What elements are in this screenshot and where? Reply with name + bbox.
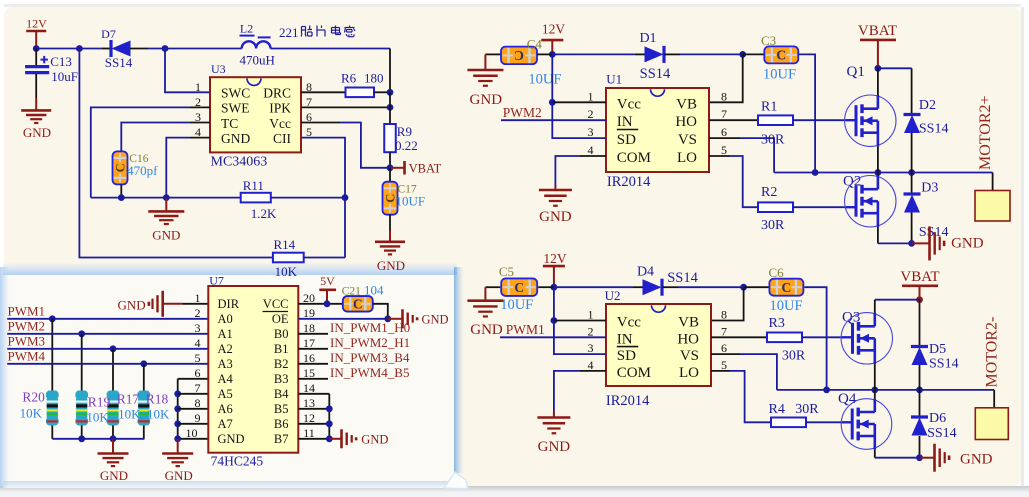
nodes on bus [78,435,85,442]
wire VB pin8 [709,54,743,102]
svg-text:10K: 10K [86,410,109,425]
svg-text:B7: B7 [274,432,289,446]
node VBAT [387,164,394,171]
svg-text:COM: COM [617,365,651,381]
U3 pin3 wire to C16 [190,122,210,124]
node PWM1 pulldown branch [49,315,56,322]
svg-text:6: 6 [721,341,727,355]
wire to motor pad 2 [993,390,995,408]
svg-text:IN_PWM1_H0: IN_PWM1_H0 [330,320,410,335]
svg-text:C: C [776,48,786,63]
svg-text:U3: U3 [211,62,226,76]
wire R11 net [91,197,241,199]
wire PWM1 to U7 pin2 [7,318,208,320]
svg-text:LO: LO [679,365,699,381]
svg-text:16: 16 [303,351,315,365]
svg-text:R19: R19 [88,395,111,410]
svg-text:C: C [113,163,127,172]
node C16-R11 net [118,194,125,201]
svg-text:VBAT: VBAT [900,269,939,285]
svg-text:PWM1: PWM1 [506,322,545,337]
svg-text:104: 104 [364,283,384,298]
svg-text:A3: A3 [218,357,233,371]
svg-text:7: 7 [195,381,201,395]
svg-text:GND: GND [422,312,449,326]
wire R4 to Q4 gate [806,421,842,423]
svg-text:D7: D7 [101,27,116,41]
resistor R6 180 [346,88,375,98]
svg-text:9: 9 [195,411,201,425]
resistor R4 30R [771,418,806,428]
IC U3 MC34063 [210,77,301,152]
node GND junction [163,194,170,201]
svg-text:GND: GND [951,236,984,252]
wire LO pin5 to R4 [711,370,730,372]
wire R2 to Q2 gate [793,206,846,208]
svg-text:GND: GND [118,298,146,313]
svg-text:MOTOR2+: MOTOR2+ [977,95,994,170]
svg-text:12V: 12V [543,251,567,266]
svg-text:180: 180 [364,71,384,86]
node: 12V rail junction [33,45,40,52]
node D1 out / VB [739,51,746,58]
svg-text:10UF: 10UF [396,194,426,209]
svg-text:VB: VB [676,96,697,112]
svg-text:7: 7 [721,107,727,121]
svg-text:R2: R2 [761,185,777,200]
svg-text:IPK: IPK [269,101,291,116]
svg-text:R20: R20 [22,390,45,405]
svg-text:6: 6 [721,125,727,139]
wire 12V rail to D1 [552,53,635,55]
ground bus GND [112,439,114,454]
IN underline (U2 pin2) [617,346,639,348]
svg-text:IN: IN [617,331,633,347]
sheet shadow bottom [0,486,1029,492]
svg-text:R4: R4 [769,402,785,417]
svg-text:2: 2 [195,306,201,320]
capacitor C4 10UF [485,53,501,55]
ground rotated at pin19 [388,318,403,320]
wire D7 to L2 [130,48,148,50]
svg-text:20: 20 [303,291,315,305]
node gnd line (U2) [916,454,923,461]
U3 pin5 wire down [301,138,345,198]
svg-text:5V: 5V [320,274,335,288]
ground C17 [375,241,405,244]
svg-text:74HC245: 74HC245 [211,454,264,469]
svg-text:IN_PWM2_H1: IN_PWM2_H1 [330,335,410,350]
svg-text:10K: 10K [118,407,141,422]
U3 pin2 wire to SWE net [190,106,210,108]
svg-text:13: 13 [303,396,315,410]
svg-text:C6: C6 [769,265,785,280]
svg-text:Q2: Q2 [843,174,861,190]
svg-text:17: 17 [303,336,315,350]
svg-text:A6: A6 [218,402,233,416]
node VBAT/Q1/D2 [875,65,882,72]
resistor R20 10K pulldown [51,319,53,391]
wire PWM4 to U7 pin5 [7,363,208,365]
node PWM4 pulldown branch [140,360,147,367]
svg-text:A2: A2 [218,342,233,356]
svg-text:GND: GND [23,125,51,140]
node PWM3 pulldown branch [110,345,117,352]
U7 output net labels [298,333,328,335]
svg-text:11: 11 [303,426,315,440]
svg-text:B4: B4 [274,387,289,401]
node pin7 [387,104,394,111]
wire VBAT to D2 col [878,67,912,69]
svg-text:PWM4: PWM4 [8,349,46,364]
svg-text:A4: A4 [218,372,234,386]
svg-text:12V: 12V [542,22,566,37]
ground U3 [165,198,167,212]
node PWM2 pulldown branch [78,330,85,337]
U3 pin8 wire to R6 [301,91,346,93]
svg-text:DRC: DRC [263,86,291,101]
svg-text:GND: GND [538,439,571,455]
svg-text:VS: VS [680,348,699,364]
capacitor C17 10UF [389,168,391,183]
capacitor C5 10UF [485,286,500,288]
svg-text:SD: SD [617,132,636,148]
node VS-D5/D6 [916,387,923,394]
svg-text:SWE: SWE [221,101,250,116]
node A (C13 branch) [76,45,83,52]
ground U1 COM [554,185,556,190]
motor connector pad M2+ [975,191,1010,222]
capacitor C3 10UF [743,53,765,55]
wire 12V rail to D4 [554,286,633,288]
resistor R1 30R [758,115,793,125]
wire LO pin5 to R2 [709,155,730,157]
svg-text:C21: C21 [342,286,361,298]
svg-text:A7: A7 [218,417,233,431]
svg-text:R3: R3 [769,316,785,331]
svg-text:SS14: SS14 [105,55,133,70]
svg-text:C: C [514,48,524,63]
svg-text:GND: GND [165,468,193,483]
resistor R9 0.22 [384,124,396,152]
svg-text:B0: B0 [274,327,289,341]
svg-text:1: 1 [195,291,201,305]
wire R3 to Q3 gate [802,336,842,338]
svg-text:R9: R9 [397,124,412,139]
svg-text:VCC: VCC [263,297,289,311]
power port VBAT (left) [390,167,404,169]
node D4 out / VB [740,284,747,291]
svg-text:10UF: 10UF [770,298,803,314]
svg-text:HO: HO [677,331,699,347]
U7 pin20 wire VCC [298,303,343,305]
wire VB pin8 (U2) [711,287,744,320]
svg-text:D4: D4 [637,265,654,280]
ground rotated (U1 low side) [912,242,930,244]
wire C6 to VS [804,287,826,390]
svg-text:30R: 30R [761,133,785,148]
ground U2 COM [553,412,555,418]
wire VS net line [774,172,993,174]
svg-text:B3: B3 [274,372,289,386]
svg-text:IN_PWM4_B5: IN_PWM4_B5 [330,365,409,380]
ground C5 [484,287,486,301]
svg-text:U7: U7 [209,274,224,288]
resistor R11 1.2K [241,193,271,203]
wire HO pin7 to R3 [711,336,767,338]
svg-text:1: 1 [588,89,594,103]
resistor R18 10K pulldown [143,364,145,391]
svg-text:10K: 10K [275,264,298,279]
svg-text:18: 18 [303,321,315,335]
svg-text:GND: GND [100,468,128,483]
wire to motor pad 1 [992,173,994,191]
node VCC [324,300,331,307]
node gnd line [908,240,915,247]
wire PWM3 to U7 pin4 [7,348,208,350]
svg-text:MOTOR2-: MOTOR2- [984,317,1001,388]
ground rotated (U2 low side) [920,457,935,459]
svg-text:4: 4 [195,336,201,350]
svg-text:B5: B5 [274,402,289,416]
svg-text:Q4: Q4 [838,391,857,407]
svg-text:Q1: Q1 [847,64,865,80]
svg-text:L2: L2 [240,22,253,36]
svg-text:R11: R11 [243,178,264,193]
svg-text:8: 8 [721,89,727,103]
svg-text:U1: U1 [606,72,622,87]
svg-text:GND: GND [218,432,245,446]
svg-text:2: 2 [588,324,594,338]
svg-text:4: 4 [588,358,594,372]
svg-text:8: 8 [195,396,201,410]
svg-text:VS: VS [678,132,697,148]
svg-text:12V: 12V [26,17,47,31]
svg-text:R17: R17 [117,392,140,407]
wire U7 pins 6-10 tie [177,379,179,439]
wire COM pin4 to gnd [580,155,606,157]
svg-text:D1: D1 [639,31,656,46]
svg-text:SD: SD [617,348,636,364]
wire L2 to vertical [271,48,391,50]
svg-text:R6: R6 [341,71,357,86]
diode D6 SS14 [919,390,921,417]
wire C3 to VS [798,54,815,172]
wire PWM2 to U7 pin3 [7,333,208,335]
wire 12V to R14 (left tall vertical) [79,49,273,258]
svg-text:B2: B2 [274,357,289,371]
capacitor C21 104 [343,296,373,312]
svg-text:SS14: SS14 [927,426,957,441]
svg-text:A5: A5 [218,387,233,401]
svg-text:D3: D3 [921,181,938,196]
svg-text:SS14: SS14 [640,66,671,82]
node VS-D2/D3 [908,169,915,176]
svg-text:10UF: 10UF [528,72,561,88]
svg-text:3: 3 [588,125,594,139]
svg-text:DIR: DIR [218,297,240,311]
svg-text:10K: 10K [20,406,43,421]
svg-text:Vcc: Vcc [617,315,641,331]
U7 pin14-11 tie wire [298,393,329,395]
svg-text:GND: GND [960,452,993,468]
IN underline (pin2) [617,129,639,131]
IC U2 IR2014 [606,304,711,386]
svg-text:B6: B6 [274,417,289,431]
node VS-Q1/Q2 [875,169,882,176]
node R11/pin5/R14 [342,194,349,201]
svg-text:D6: D6 [929,411,946,426]
svg-text:3: 3 [195,321,201,335]
svg-text:CII: CII [273,131,292,146]
svg-text:U2: U2 [605,288,621,303]
svg-text:MC34063: MC34063 [211,155,268,170]
svg-text:B1: B1 [274,342,289,356]
svg-text:1: 1 [195,80,201,94]
svg-text:PWM2: PWM2 [503,105,542,120]
svg-text:10: 10 [186,426,198,440]
ground C4 [484,54,486,70]
svg-text:C5: C5 [499,264,514,279]
node VS-Q3/Q4 [871,387,878,394]
svg-text:R18: R18 [146,392,169,407]
svg-text:7: 7 [721,324,727,338]
resistor R2 30R [758,202,793,212]
svg-text:GND: GND [539,209,572,225]
svg-text:A0: A0 [218,312,233,326]
svg-text:GND: GND [152,228,180,243]
wire node down to R14 [344,198,346,258]
svg-text:VB: VB [678,315,699,331]
svg-text:HO: HO [675,114,697,130]
wire R1 to Q1 gate [793,119,846,121]
svg-text:C4: C4 [527,37,543,52]
svg-text:SWC: SWC [221,86,250,101]
svg-text:C3: C3 [761,33,776,48]
svg-text:30R: 30R [761,218,785,233]
svg-text:12: 12 [303,411,315,425]
U3 pin7 wire [301,106,390,108]
U3 pin6 wire to VBAT node [301,122,340,124]
wire resistor ground bus [52,438,144,440]
resistor R14 10K [273,253,304,263]
wire VS net line (U2) [777,389,994,391]
diode D3 SS14 [911,173,913,195]
node VBAT/Q3/D5 [916,296,923,303]
pasted 74HC245 screenshot block background [3,267,457,488]
svg-text:VBAT: VBAT [858,23,897,39]
ground rotated at pin11 [329,438,341,440]
svg-text:0.22: 0.22 [395,138,418,153]
svg-text:PWM1: PWM1 [8,304,46,319]
svg-text:19: 19 [303,306,315,320]
capacitor C13 [35,49,37,67]
IC U7 74HC245 [208,286,298,453]
svg-text:30R: 30R [795,402,819,417]
node pin10 gnd [174,435,181,442]
svg-text:5: 5 [721,143,727,157]
svg-text:10UF: 10UF [500,297,533,313]
svg-text:1: 1 [588,308,594,322]
node OE/C21 [384,315,391,322]
wire R11 to pin5 node [271,197,345,199]
svg-text:IR2014: IR2014 [607,174,651,190]
wire COM pin4 to gnd (U2) [580,370,606,372]
svg-text:470uH: 470uH [240,52,275,67]
svg-text:OE: OE [272,312,289,326]
wire node to U3 pin1 [165,49,210,93]
wire 12V rail to D7 [36,48,102,50]
diode D5 SS14 [919,300,921,347]
svg-text:Vcc: Vcc [269,116,291,131]
svg-text:C: C [514,280,524,295]
resistor R19 10K pulldown [81,334,83,391]
U7 pin19 OE wire [298,318,388,320]
resistor R17 10K pulldown [112,349,114,391]
svg-text:3: 3 [588,341,594,355]
svg-text:C13: C13 [50,54,72,69]
svg-text:GND: GND [361,432,388,446]
wire 12V down to pin1/pin3 (U2) [553,287,555,320]
svg-text:10K: 10K [147,407,170,422]
node VS-C6 [823,387,830,394]
svg-text:GND: GND [470,322,503,338]
svg-text:470pf: 470pf [127,163,158,178]
OE overline [263,311,289,313]
svg-text:R14: R14 [274,237,296,252]
wire Q2 source to gnd [878,242,912,244]
node 12V U2 [551,284,558,291]
svg-text:Vcc: Vcc [617,96,641,112]
node VS-C3 [812,169,819,176]
svg-text:221: 221 [279,25,299,40]
svg-text:TC: TC [221,116,238,131]
diode D2 SS14 [911,68,913,114]
svg-text:A1: A1 [218,327,233,341]
svg-text:10uF: 10uF [51,69,78,84]
wire 12V down to pin1/pin3 [551,54,553,102]
wire HO pin7 to R1 [709,119,758,121]
svg-text:GND: GND [377,258,405,273]
motor connector pad M2- [975,408,1008,440]
svg-text:5: 5 [721,358,727,372]
wire VS pin6 [709,137,740,139]
svg-text:IN: IN [617,114,633,130]
svg-text:1.2K: 1.2K [251,206,277,221]
svg-text:SS14: SS14 [929,357,959,372]
svg-text:SS14: SS14 [667,270,698,286]
svg-text:8: 8 [721,308,727,322]
svg-text:4: 4 [588,143,594,157]
svg-text:VBAT: VBAT [409,161,442,175]
wire vertical right rail [389,49,391,93]
node R6 out [387,89,394,96]
svg-text:2: 2 [588,107,594,121]
page curl artifact [444,472,468,489]
svg-text:14: 14 [303,381,315,395]
svg-text:GND: GND [470,92,503,108]
wire VS pin6 (U2) [711,353,740,355]
capacitor C6 10UF [744,286,769,288]
svg-text:SS14: SS14 [919,122,949,137]
svg-text:D5: D5 [929,342,946,357]
svg-text:PWM2: PWM2 [8,319,46,334]
svg-text:5: 5 [195,351,201,365]
ground U7 pin10 [177,439,179,454]
capacitor C16 470pf [113,151,128,184]
node: pin1 branch [162,45,169,52]
svg-text:IR2014: IR2014 [606,393,650,409]
